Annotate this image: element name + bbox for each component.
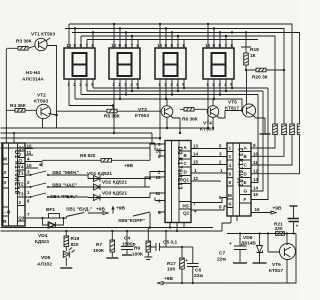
switch SB2 MIN: [25, 170, 88, 179]
resistor R7 100K: [93, 230, 118, 258]
svg-text:+: +: [229, 242, 232, 247]
svg-text:Q3: Q3: [18, 216, 25, 221]
svg-text:КД521: КД521: [35, 239, 50, 245]
svg-text:R3 36К: R3 36К: [16, 39, 32, 45]
svg-text:КТ817: КТ817: [269, 268, 283, 274]
svg-text:VD2 КД521: VD2 КД521: [102, 180, 127, 186]
svg-text:АЛС314А: АЛС314А: [22, 77, 44, 83]
svg-text:11: 11: [27, 150, 32, 155]
svg-text:+9В: +9В: [116, 206, 125, 212]
display H1 pin numbers top: [66, 43, 94, 48]
svg-text:→B: →B: [3, 210, 12, 215]
svg-text:VT5: VT5: [228, 100, 237, 106]
D2 left pin numbers: [155, 142, 165, 215]
capacitor C5 0,1: [148, 230, 182, 251]
display H3 top pin stubs: [160, 24, 184, 48]
svg-text:R17: R17: [167, 261, 176, 267]
transistor VT1 KT503: [31, 32, 57, 129]
D3 bottom stubs: [222, 216, 237, 231]
resistor R21 330: [274, 222, 285, 236]
svg-text:R18: R18: [250, 47, 259, 53]
svg-text:SB1 "БУД.": SB1 "БУД.": [66, 207, 92, 213]
resistor R10 segment (hatched): [251, 124, 277, 148]
junction dots top buses: [74, 23, 233, 37]
wire bus lines below displays: [69, 88, 268, 111]
svg-text:100К: 100К: [132, 252, 143, 258]
svg-text:15: 15: [193, 160, 199, 165]
indicator H2 digit 8: [118, 53, 132, 76]
svg-text:HS: HS: [183, 204, 189, 209]
svg-text:VD5: VD5: [41, 255, 51, 261]
svg-text:Н1-Н4: Н1-Н4: [26, 70, 40, 76]
svg-text:R9: R9: [134, 246, 140, 252]
svg-text:13: 13: [193, 144, 199, 149]
svg-text:Q1: Q1: [18, 146, 25, 151]
svg-text:R6 36К: R6 36К: [182, 117, 198, 123]
svg-text:1К: 1К: [250, 53, 256, 59]
D1 right pin numbers and stubs: [25, 144, 42, 218]
wire mid bus lines: [1, 128, 209, 148]
transistor VT5 KT817: [225, 70, 271, 134]
svg-text:C5 0,1: C5 0,1: [163, 240, 177, 246]
display H4 bottom pin stubs: [208, 79, 232, 128]
svg-text:M: M: [228, 193, 232, 198]
resistor R4 36K: [6, 103, 36, 112]
svg-text:D3 К176ИД2: D3 К176ИД2: [237, 148, 243, 187]
svg-text:T3: T3: [18, 192, 24, 197]
svg-text:VD6: VD6: [243, 235, 253, 241]
indicator H2 box: [109, 48, 140, 79]
svg-text:330: 330: [275, 226, 283, 232]
buzzer BF1: [25, 207, 67, 228]
svg-text:R20 3К: R20 3К: [252, 75, 268, 81]
switch SB4 REZH: [25, 193, 88, 200]
IC D1 K176IE18: [2, 143, 25, 226]
wire bottom rail right: [157, 234, 296, 285]
resistor R13 segment (hatched): [251, 124, 302, 174]
display H2 pin numbers top: [111, 43, 139, 48]
display H4 pin numbers bottom: [206, 82, 233, 87]
svg-text:11: 11: [253, 160, 258, 165]
svg-text:+9В: +9В: [164, 276, 173, 282]
display H1 top pin stubs: [69, 24, 93, 48]
indicator H4 box: [203, 48, 234, 79]
transistor VT6 KT817: [267, 232, 296, 283]
svg-text:VD3 КД521: VD3 КД521: [102, 191, 127, 197]
svg-text:11: 11: [156, 191, 161, 196]
svg-text:16: 16: [255, 207, 261, 212]
resistor R20 3K: [245, 68, 285, 80]
svg-text:КТ503: КТ503: [34, 99, 48, 105]
svg-text:14: 14: [253, 186, 259, 191]
svg-text:10: 10: [27, 144, 33, 149]
zener VD6 D814B: [241, 232, 267, 263]
diode VD3 KD521: [88, 191, 150, 201]
+9V mid label: [111, 206, 125, 214]
svg-text:14: 14: [193, 152, 199, 157]
diode VD2 KD521: [88, 180, 150, 191]
svg-text:SB3 "ЧАС": SB3 "ЧАС": [52, 183, 77, 189]
svg-text:M: M: [3, 157, 7, 162]
svg-text:T1: T1: [18, 171, 24, 176]
svg-text:E: E: [244, 180, 247, 185]
transistor VT2 KT503: [34, 93, 57, 129]
svg-text:R8 820: R8 820: [80, 153, 96, 159]
display H1 bottom pin stubs: [69, 79, 93, 106]
svg-text:VT4: VT4: [203, 121, 212, 127]
svg-text:VT6: VT6: [272, 262, 281, 268]
svg-text:SB5"КОРР": SB5"КОРР": [118, 218, 145, 224]
svg-text:КТ503: КТ503: [135, 113, 149, 119]
svg-text:100К: 100К: [93, 248, 104, 254]
svg-text:+9В: +9В: [96, 207, 105, 213]
wire VT3 VT4 emitters to mid bus: [150, 117, 213, 156]
transistor VT4 KT503: [200, 99, 225, 133]
wire bottom rails: [1, 228, 223, 232]
LED VD5 AL102: [37, 248, 75, 269]
svg-text:820: 820: [71, 242, 79, 248]
resistor R19 820: [64, 230, 80, 251]
resistor R5 36K: [57, 109, 162, 119]
wire into D1 top: [13, 133, 15, 143]
svg-text:VD4: VD4: [38, 233, 48, 239]
resistor R11 segment (hatched): [251, 124, 286, 156]
svg-text:10К: 10К: [167, 267, 175, 273]
resistor R6 36K: [180, 108, 208, 123]
svg-text:VT2: VT2: [37, 93, 46, 99]
display H1 pin numbers bottom: [67, 82, 94, 87]
svg-text:BF1: BF1: [46, 207, 55, 213]
display H4 top pin stubs: [208, 24, 232, 48]
resistor R18 1K: [241, 31, 259, 70]
svg-text:15: 15: [253, 192, 259, 197]
svg-text:T4: T4: [18, 165, 24, 170]
D2 right pin numbers and wires to D3: [191, 144, 227, 214]
display H3 pin numbers bottom: [158, 82, 185, 87]
svg-text:VT1 КТ503: VT1 КТ503: [31, 32, 55, 38]
svg-text:Q1: Q1: [183, 178, 190, 183]
capacitor C6 22m: [185, 247, 203, 283]
resistor R17 10K: [167, 247, 184, 283]
display H3 pin numbers top: [157, 43, 185, 48]
svg-text:Q2: Q2: [183, 211, 190, 216]
switch SB1 BUD: [66, 207, 108, 217]
svg-text:+: +: [296, 225, 299, 230]
switch SB5 KORR: [118, 212, 151, 229]
svg-text:C6: C6: [195, 268, 201, 274]
svg-text:Д814Б: Д814Б: [241, 241, 256, 247]
diode VD1 KD521: [87, 171, 150, 182]
svg-text:R19: R19: [71, 236, 80, 242]
svg-text:X: X: [3, 180, 6, 185]
svg-text:X: X: [3, 170, 6, 175]
switch SB3 CHAS: [25, 183, 88, 189]
wire left vertical from R3/R4: [5, 49, 7, 143]
svg-text:Q: Q: [19, 158, 23, 163]
display H2 bottom pin stubs: [114, 79, 138, 133]
resistor R8 820: [40, 153, 151, 166]
display H2 pin numbers bottom: [112, 82, 139, 87]
svg-text:АЛ102: АЛ102: [37, 262, 52, 268]
svg-text:+: +: [185, 259, 188, 264]
capacitor C4 1500p: [121, 230, 136, 255]
wires from diodes to D2: [145, 144, 165, 198]
svg-text:+9В: +9В: [124, 163, 133, 169]
D3 pin 16 +9V: [251, 206, 282, 215]
indicator H3 digit 8: [164, 53, 178, 76]
transistor VT3 KT503: [135, 99, 180, 133]
svg-text:15: 15: [27, 163, 33, 168]
svg-text:R5 36К: R5 36К: [104, 114, 120, 120]
svg-text:22м: 22м: [194, 273, 203, 279]
display H3 bottom pin stubs: [160, 79, 184, 138]
wire top bus lines: [65, 24, 300, 124]
indicator H1 digit 8: [73, 53, 87, 76]
svg-text:12: 12: [193, 176, 199, 181]
svg-text:16: 16: [156, 175, 162, 180]
display H4 pin numbers top: [205, 43, 233, 48]
resistor R12 segment (hatched): [251, 124, 294, 165]
indicator H1 box: [64, 48, 95, 79]
indicator H3 box: [155, 48, 186, 79]
svg-text:G: G: [244, 189, 248, 194]
svg-text:VT3: VT3: [138, 107, 147, 113]
resistor R3 36K: [6, 39, 35, 51]
indicator H4 digit 8: [212, 53, 226, 76]
resistor R9 100K: [132, 228, 152, 260]
wire D2 bottom stubs: [170, 223, 184, 232]
capacitor C8 right edge: [288, 206, 300, 235]
svg-text:+9В: +9В: [273, 206, 282, 212]
svg-text:F: F: [244, 197, 247, 202]
svg-text:C7: C7: [219, 251, 225, 257]
capacitor C7 22m: [217, 232, 296, 263]
svg-text:T2: T2: [18, 182, 24, 187]
IC D2 K176IE13: [165, 141, 191, 223]
svg-text:22м: 22м: [217, 257, 226, 263]
svg-text:R7: R7: [96, 242, 102, 248]
diode VD4 KD521: [35, 222, 56, 245]
display H2 top pin stubs: [114, 24, 138, 48]
D3 right pin numbers and wires: [251, 88, 268, 200]
IC D3 K176ID2: [227, 143, 251, 216]
junction dots lower buses: [55, 87, 243, 116]
